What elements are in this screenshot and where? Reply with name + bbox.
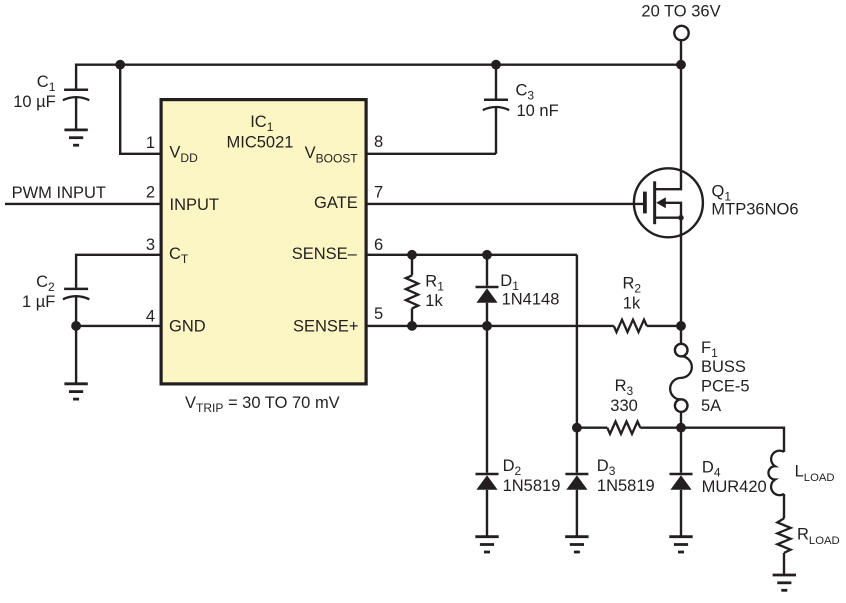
Q1 channel bar (653, 181, 656, 224)
svg-text:1N5819: 1N5819 (503, 477, 561, 495)
supply terminal (674, 26, 688, 40)
svg-text:GATE: GATE (314, 194, 358, 212)
svg-text:R3: R3 (615, 377, 634, 398)
wire C3 top lead (495, 65, 497, 99)
svg-text:330: 330 (610, 397, 638, 415)
wire Q1 source down to sense junction (680, 218, 682, 326)
svg-text:MUR420: MUR420 (702, 478, 767, 496)
svg-text:BUSS: BUSS (701, 358, 746, 376)
svg-text:PWM INPUT: PWM INPUT (12, 184, 106, 202)
resistor R LOAD (777, 518, 790, 553)
capacitor C1 (63, 90, 89, 100)
capacitor C2 (63, 289, 89, 299)
svg-text:PCE-5: PCE-5 (701, 378, 750, 396)
svg-text:5: 5 (374, 305, 383, 323)
wire inductor to resistor (783, 494, 785, 519)
resistor R3 (607, 422, 640, 434)
wire resistor to ground (783, 553, 785, 575)
wire pin8 VBOOST (366, 153, 496, 155)
svg-text:20 TO 36V: 20 TO 36V (641, 3, 720, 21)
diode D2 (476, 474, 499, 537)
node junction R3-D3 (572, 423, 582, 433)
svg-text:D4: D4 (702, 459, 721, 480)
svg-text:1k: 1k (425, 292, 443, 310)
svg-text:MIC5021: MIC5021 (227, 134, 294, 152)
svg-text:5A: 5A (701, 397, 721, 415)
wire C1 top lead (75, 64, 77, 89)
wire pin4 GND (76, 325, 161, 327)
diode D3 (565, 474, 588, 537)
ground D3 (565, 537, 588, 552)
wire sense- corner down through R3 node to D3 (576, 255, 578, 473)
diode D4 (670, 428, 693, 537)
node junction rail-drain (676, 60, 686, 70)
svg-text:10 µF: 10 µF (13, 93, 56, 111)
node junction C3-rail (491, 60, 501, 70)
svg-text:SENSE–: SENSE– (292, 245, 358, 263)
svg-text:C3: C3 (516, 82, 535, 103)
ground C2 (64, 384, 87, 399)
wire pin5 SENSE+ (366, 325, 614, 327)
wire D1 to D2 (486, 326, 488, 473)
node junction R3-D4 (676, 423, 686, 433)
svg-text:3: 3 (146, 236, 155, 254)
wire pin3 to C2 (76, 255, 161, 288)
svg-text:GND: GND (169, 317, 206, 335)
svg-text:R2: R2 (623, 275, 642, 296)
ground R LOAD (773, 575, 796, 590)
svg-text:R1: R1 (425, 273, 444, 294)
wire C3 bottom lead (495, 107, 497, 154)
svg-text:4: 4 (146, 308, 155, 326)
wire C2 to ground (75, 326, 77, 384)
svg-text:RLOAD: RLOAD (797, 526, 840, 547)
fuse F1 (670, 326, 692, 428)
svg-text:1k: 1k (623, 295, 641, 313)
Q1 gate bar (643, 192, 647, 214)
wire pin1 jog (120, 65, 161, 154)
svg-text:1 µF: 1 µF (22, 293, 55, 311)
node junction C2-GND (71, 321, 81, 331)
wire pin7 GATE to Q1 (366, 203, 643, 205)
resistor R1 (406, 255, 418, 326)
wire R2 to rail (647, 325, 681, 327)
svg-text:10 nF: 10 nF (517, 102, 559, 120)
ground D2 (475, 537, 498, 552)
capacitor C3 (483, 100, 509, 110)
wire C1 bottom lead (75, 97, 77, 130)
node Q1 source junction (678, 215, 683, 220)
node junction C1-rail (115, 60, 125, 70)
svg-text:1N5819: 1N5819 (597, 477, 655, 495)
svg-text:LLOAD: LLOAD (795, 463, 835, 484)
wire R3 left lead (577, 427, 607, 429)
svg-text:8: 8 (374, 133, 383, 151)
diode D1 (476, 255, 499, 326)
wire pin6 SENSE- (366, 254, 577, 256)
wire PWM input (5, 203, 161, 205)
wire supply to rail (680, 40, 682, 64)
wire R3 right lead (640, 427, 681, 429)
Q1 body circle (634, 168, 703, 237)
svg-text:6: 6 (374, 236, 383, 254)
node junction D1-sense- (482, 250, 492, 260)
svg-text:VTRIP = 30 TO 70 mV: VTRIP = 30 TO 70 mV (185, 394, 340, 415)
svg-text:D3: D3 (597, 457, 616, 478)
ground D4 (669, 537, 692, 552)
svg-text:2: 2 (146, 183, 155, 201)
ground C1 (64, 130, 87, 145)
wire C2 bottom lead (75, 296, 77, 326)
svg-text:1N4148: 1N4148 (502, 290, 560, 308)
op-amp U1 IC1 MIC5021 body (161, 100, 366, 384)
resistor R2 (614, 320, 647, 332)
svg-text:INPUT: INPUT (170, 196, 220, 214)
svg-text:MTP36NO6: MTP36NO6 (711, 201, 798, 219)
node junction R2-rail (676, 321, 686, 331)
Q1 drain stub (656, 65, 681, 190)
wire top rail (76, 63, 681, 65)
svg-text:1: 1 (146, 134, 155, 152)
Q1 body stub with arrow (665, 203, 682, 218)
svg-text:C2: C2 (36, 273, 55, 294)
transistor Q1 MOSFET (634, 65, 703, 238)
node junction R1-sense- (407, 250, 417, 260)
svg-text:C1: C1 (37, 73, 56, 94)
node junction R1-sense+ (407, 321, 417, 331)
svg-text:F1: F1 (701, 339, 718, 360)
Q1 source stub (656, 216, 681, 218)
svg-text:SENSE+: SENSE+ (293, 317, 359, 335)
svg-text:D2: D2 (503, 457, 522, 478)
node junction D1-sense+ (482, 321, 492, 331)
svg-text:7: 7 (374, 184, 383, 202)
inductor L LOAD (768, 451, 784, 496)
wire to load branch (681, 428, 784, 452)
